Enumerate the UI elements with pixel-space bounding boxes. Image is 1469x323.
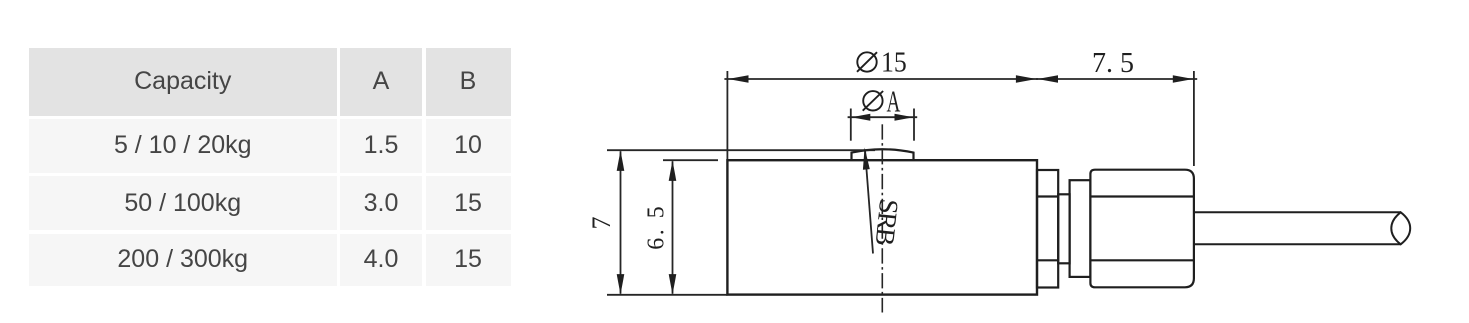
collar xyxy=(1070,180,1091,277)
centerline xyxy=(881,124,883,312)
load cell body xyxy=(727,160,1037,294)
dimension 6.5 label xyxy=(644,204,670,250)
dimension 7 xyxy=(607,150,875,295)
dimension Ø15 xyxy=(724,71,1038,159)
table row 3 capacity xyxy=(29,234,337,286)
table row 2 A value xyxy=(340,176,422,230)
svg-text:7. 5: 7. 5 xyxy=(1092,48,1134,79)
svg-text:A: A xyxy=(887,84,901,119)
table row 3 B value xyxy=(426,234,511,286)
dimension 7.5 label xyxy=(1092,48,1134,79)
svg-text:SRB: SRB xyxy=(870,198,905,247)
dimension 6.5 xyxy=(663,160,718,294)
cable end xyxy=(1391,212,1410,244)
table header cell A xyxy=(340,48,422,116)
dimension 7 label xyxy=(587,217,616,230)
table header cell B xyxy=(426,48,511,116)
table header cell Capacity xyxy=(29,48,337,116)
cable xyxy=(1194,212,1401,244)
spacer xyxy=(1058,194,1069,263)
dimension 7.5 xyxy=(1036,71,1197,166)
leader SRB xyxy=(863,148,904,254)
dimension Ø15 label xyxy=(857,47,907,78)
svg-text:6. 5: 6. 5 xyxy=(644,204,670,250)
table row 3 A value xyxy=(340,234,422,286)
load button xyxy=(852,149,914,160)
dimension ØA xyxy=(848,109,918,141)
table row 1 B value xyxy=(426,119,511,173)
table row 1 capacity xyxy=(29,119,337,173)
cable gland xyxy=(1090,170,1194,288)
table row 2 capacity xyxy=(29,176,337,230)
dimension ØA label xyxy=(863,84,901,119)
table row 1 A value xyxy=(340,119,422,173)
table row 2 B value xyxy=(426,176,511,230)
svg-text:15: 15 xyxy=(881,47,907,78)
svg-text:7: 7 xyxy=(587,217,616,230)
washer xyxy=(1037,170,1058,288)
